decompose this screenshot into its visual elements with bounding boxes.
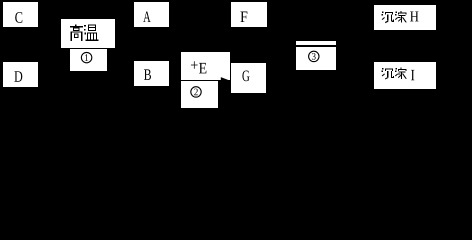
letter G	[242, 71, 249, 82]
glyph 高	[70, 24, 83, 41]
arrowhead of arrow B to G	[221, 77, 230, 84]
arrow line over circled-3 box	[296, 45, 336, 47]
box precipitate H	[374, 5, 436, 30]
label box +E (reagent on arrow 2)	[181, 52, 230, 80]
glyph 沉 (H box)	[382, 11, 394, 21]
letter B	[144, 69, 151, 80]
box F	[231, 2, 267, 27]
box A	[134, 2, 169, 27]
label box circled 3	[296, 41, 336, 70]
label box circled 1	[70, 49, 107, 71]
box precipitate I	[374, 62, 436, 89]
letter E of +E	[199, 63, 206, 73]
box B	[134, 61, 169, 86]
glyph 温	[84, 24, 99, 41]
glyph 沉 (I box)	[382, 68, 394, 78]
glyph 淀 (I box)	[395, 67, 407, 79]
glyph 淀 (H box)	[395, 11, 407, 23]
letter D	[14, 71, 22, 82]
letter A	[143, 11, 150, 22]
box D	[3, 62, 38, 87]
plus of +E	[191, 61, 198, 68]
letter H	[410, 11, 418, 21]
box G	[231, 63, 266, 93]
circled digit 2	[191, 87, 201, 97]
letter F	[240, 12, 247, 22]
label box 高温 (condition on arrow 1)	[61, 19, 115, 48]
label box circled 2	[181, 81, 218, 108]
letter I	[411, 70, 414, 80]
circled digit 1	[81, 52, 91, 62]
box C	[3, 2, 38, 27]
circled digit 3	[309, 51, 319, 61]
letter C	[15, 12, 22, 23]
